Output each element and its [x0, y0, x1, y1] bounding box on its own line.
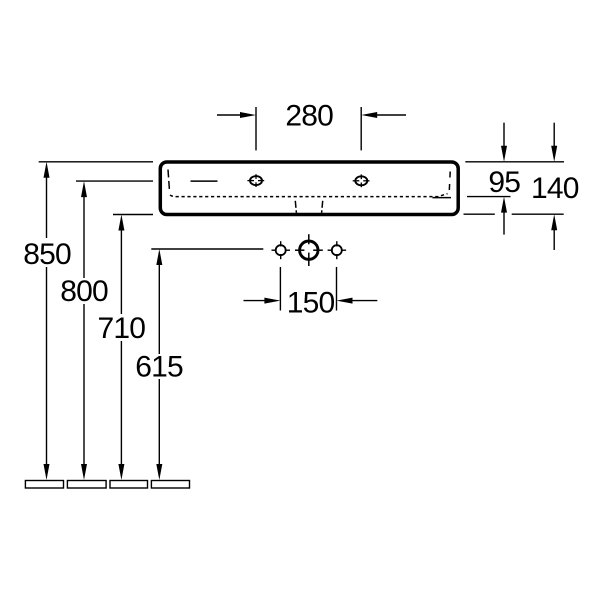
- dimension 615: [158, 263, 160, 466]
- floor tiles: [25, 481, 189, 489]
- svg-text:150: 150: [287, 286, 335, 319]
- svg-text:850: 850: [23, 238, 71, 271]
- basin interior dashed bottom: [170, 194, 447, 197]
- ledge line right: [433, 197, 452, 199]
- dimension 150: [244, 267, 378, 311]
- dimension 850: [46, 176, 48, 466]
- svg-text:95: 95: [488, 166, 520, 199]
- drain circle: [295, 234, 323, 266]
- tap hole right: [353, 174, 370, 187]
- basin interior dashed right edge: [448, 172, 451, 191]
- dimension 280 top: [217, 107, 406, 150]
- basin interior dashed left edge: [168, 170, 170, 192]
- dimension 140: [553, 123, 555, 250]
- dimension 800: [83, 195, 85, 466]
- overflow line left: [191, 180, 218, 182]
- svg-text:140: 140: [531, 172, 579, 205]
- dimension 710: [120, 228, 122, 466]
- svg-text:800: 800: [60, 275, 108, 308]
- tap hole left: [247, 174, 264, 187]
- fixing hole right: [328, 241, 347, 259]
- svg-text:615: 615: [135, 350, 183, 383]
- basin outline: [160, 162, 458, 215]
- left extension lines: [39, 162, 264, 249]
- svg-text:710: 710: [97, 312, 145, 345]
- drain dashed left: [295, 201, 296, 213]
- svg-text:280: 280: [285, 99, 333, 132]
- fixing hole left: [272, 241, 291, 259]
- dimension 95: [503, 123, 505, 235]
- drain dashed right: [322, 201, 323, 213]
- right side extension lines: [464, 162, 565, 214]
